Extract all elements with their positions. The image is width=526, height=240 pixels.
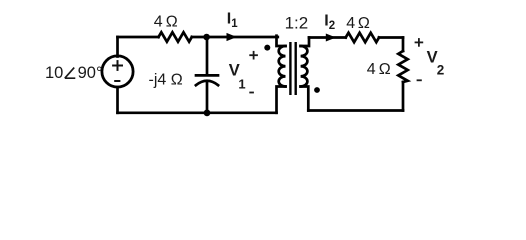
svg-text:10: 10: [45, 64, 63, 82]
wire source bottom vertical: [116, 87, 119, 113]
capacitor C1 straight plate: [196, 74, 218, 77]
transformer T1 primary winding: [279, 46, 286, 86]
svg-text:2: 2: [437, 63, 445, 78]
svg-text:-j4 Ω: -j4 Ω: [149, 72, 183, 89]
svg-text:4 Ω: 4 Ω: [154, 13, 178, 30]
junction node dot at capacitor bottom: [204, 110, 211, 117]
label V1 plus sign: [249, 51, 258, 60]
voltage source minus sign: [114, 80, 120, 82]
wire secondary bottom rail: [308, 109, 403, 112]
current I1 arrowhead: [227, 33, 237, 41]
svg-text:1: 1: [238, 76, 245, 91]
wire right vertical upper: [402, 38, 405, 52]
label source value 10 angle 90: [45, 64, 103, 82]
wire secondary top rail right segment: [379, 36, 403, 39]
transformer T1 secondary bottom lead: [301, 87, 309, 111]
svg-text:1: 1: [231, 18, 238, 30]
wire top rail left segment: [118, 36, 159, 39]
transformer T1 primary top lead: [277, 36, 286, 46]
label V2 minus sign: [417, 79, 422, 81]
transformer secondary polarity dot: [314, 87, 320, 93]
transformer T1 core line 2: [295, 43, 297, 94]
resistor R1 4ohm zigzag: [159, 32, 192, 41]
capacitor C1 curved plate: [196, 81, 218, 85]
label V1 minus sign: [249, 92, 254, 94]
resistor R2 4ohm zigzag (secondary top): [346, 33, 379, 42]
wire right vertical lower: [402, 82, 405, 111]
svg-text:1:2: 1:2: [285, 14, 309, 33]
voltage source plus sign: [112, 60, 123, 71]
resistor R3 4ohm vertical zigzag: [398, 51, 407, 82]
svg-text:4 Ω: 4 Ω: [367, 61, 391, 78]
transformer T1 secondary winding: [301, 46, 308, 86]
transformer T1 primary bottom lead: [277, 87, 286, 113]
wire top rail right segment to transformer: [192, 36, 278, 39]
capacitor C1 top lead: [206, 37, 209, 74]
transformer T1 secondary top lead: [301, 38, 309, 47]
wire secondary top rail: [309, 36, 346, 39]
junction node dot at capacitor top: [203, 34, 210, 41]
svg-text:4 Ω: 4 Ω: [346, 15, 370, 32]
wire primary bottom rail: [118, 111, 277, 114]
transformer primary polarity dot: [264, 45, 270, 51]
svg-text:2: 2: [329, 20, 335, 32]
current I2 arrowhead: [326, 34, 336, 42]
wire top-left vertical (source top to top rail): [116, 37, 119, 57]
voltage source VS circle: [102, 56, 133, 87]
svg-text:90°: 90°: [78, 64, 103, 82]
label V2 plus sign: [415, 38, 424, 47]
transformer T1 core line 1: [289, 43, 291, 94]
capacitor C1 bottom lead: [206, 82, 209, 113]
